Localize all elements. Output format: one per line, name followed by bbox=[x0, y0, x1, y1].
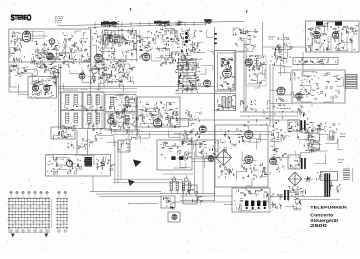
svg-text:TELEFUNKEN: TELEFUNKEN bbox=[310, 205, 347, 209]
svg-text:2500: 2500 bbox=[310, 223, 328, 228]
svg-text:Concerto: Concerto bbox=[310, 213, 333, 218]
svg-text:STEREO: STEREO bbox=[11, 13, 32, 23]
